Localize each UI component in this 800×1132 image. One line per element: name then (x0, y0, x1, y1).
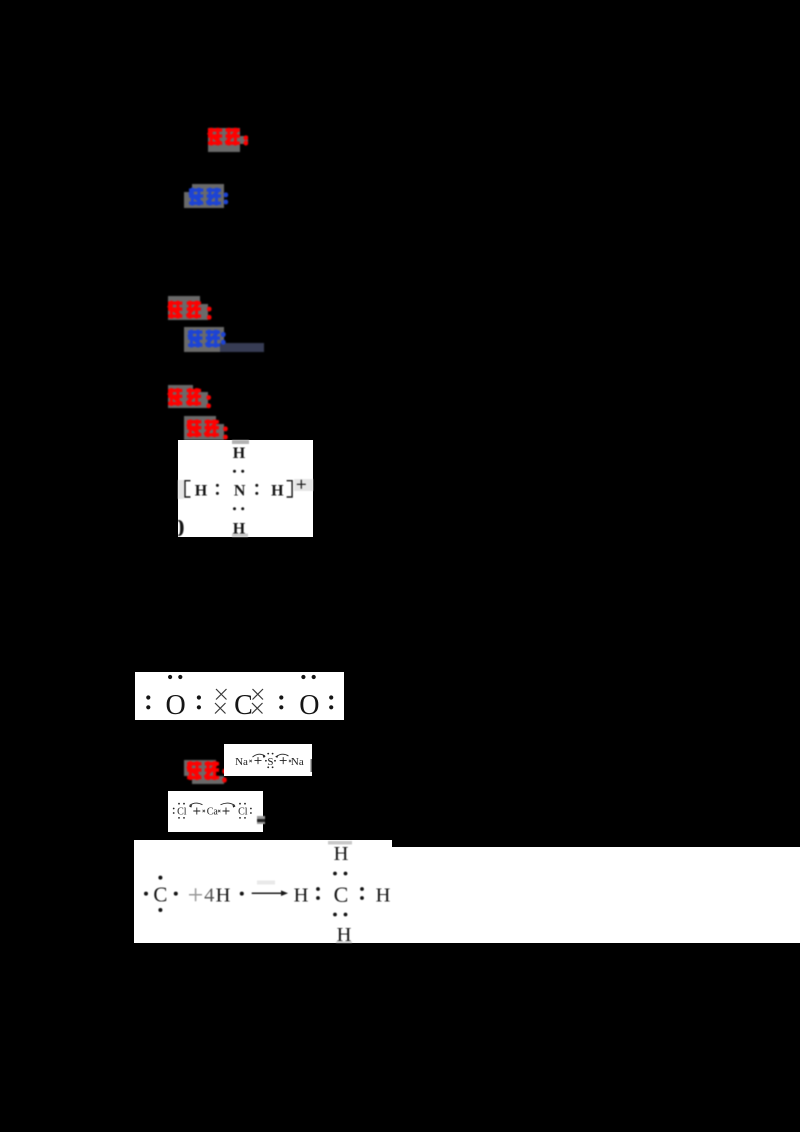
svg-text:4: 4 (204, 884, 214, 906)
svg-text:H: H (233, 445, 246, 462)
svg-text:S: S (267, 756, 273, 768)
white box: Na2S electron transfer (224, 744, 312, 776)
right colon (329, 695, 333, 699)
right colon (250, 808, 252, 810)
svg-text:Ca: Ca (207, 806, 219, 817)
bond colon (316, 887, 320, 891)
svg-text:C: C (234, 690, 253, 720)
plus (gray) (189, 888, 202, 901)
left colon (146, 695, 150, 699)
bond colon (216, 484, 219, 487)
plus right (280, 757, 287, 764)
left colon (173, 808, 175, 810)
svg-text:C: C (153, 882, 167, 906)
red label 答案 B (160, 290, 224, 326)
lone pairs above C (333, 872, 337, 876)
bond colon (255, 484, 258, 487)
arc arrow left (to S) (253, 754, 266, 757)
red label 答案 A (top) (200, 120, 260, 156)
svg-text:C: C (334, 882, 349, 907)
lone pair below top H (233, 470, 236, 473)
x mark (289, 760, 291, 762)
gray strip below bottom H (232, 534, 248, 538)
colon (197, 695, 201, 699)
plus superscript (297, 480, 306, 489)
white box: CO2 Lewis structure (135, 672, 344, 720)
lone pairs below C (333, 913, 337, 917)
dots above right O (301, 675, 305, 679)
svg-text:H: H (271, 483, 284, 500)
x marks right of C (252, 689, 263, 714)
svg-text:0: 0 (178, 516, 185, 537)
faint selection slivers (178, 480, 184, 499)
right bracket (287, 481, 293, 497)
lone pair above bottom H (233, 507, 236, 510)
svg-text:H: H (337, 924, 352, 943)
left bracket (185, 481, 191, 497)
x mark (249, 760, 251, 762)
arc arrow to left Cl (190, 803, 203, 805)
svg-text:H: H (233, 520, 246, 537)
dot left of C (144, 892, 148, 896)
plus left (193, 808, 200, 815)
svg-text:H: H (216, 884, 231, 906)
x (203, 810, 205, 812)
svg-text:Na: Na (235, 756, 248, 768)
bond colon (360, 887, 364, 891)
white box: NH4+ Lewis structure (178, 440, 313, 537)
x marks left of C (215, 689, 227, 714)
svg-text:O: O (165, 690, 185, 720)
arc arrow to right Cl (221, 803, 236, 805)
plus right (223, 808, 230, 815)
dots above left O (168, 675, 172, 679)
red label 答案 D (178, 412, 242, 448)
svg-text:H: H (334, 843, 349, 865)
plus left (255, 757, 262, 764)
small gray list marker right of CaCl2 box (257, 816, 265, 824)
svg-text:H: H (376, 884, 391, 906)
faint smudge above reaction arrow (257, 881, 275, 885)
svg-text:Cl: Cl (177, 806, 187, 817)
red label 答案 E (178, 754, 238, 790)
blue label 解析 B + navy underline (178, 321, 270, 357)
gray strip above top H (232, 440, 249, 444)
gray underline below bottom H (336, 942, 352, 944)
arc arrow right (to S) (276, 754, 289, 757)
gray strip above CH4 top H (328, 841, 352, 845)
thin bar at right edge (310, 759, 312, 772)
red label 答案 C (160, 380, 224, 416)
svg-text:H: H (195, 483, 208, 500)
blue label 解析 A (180, 178, 240, 214)
svg-text:O: O (299, 690, 319, 720)
svg-text:Na: Na (291, 756, 304, 768)
svg-text:N: N (234, 483, 246, 500)
x (218, 810, 220, 812)
white box: CH4 formation (big, full width to right edge) (134, 840, 392, 848)
white box: CaCl2 electron transfer (168, 791, 263, 832)
reaction arrow (252, 892, 283, 894)
dot after H (240, 892, 244, 896)
svg-text:Cl: Cl (238, 806, 248, 817)
svg-text:H: H (294, 884, 309, 906)
colon (279, 695, 283, 699)
